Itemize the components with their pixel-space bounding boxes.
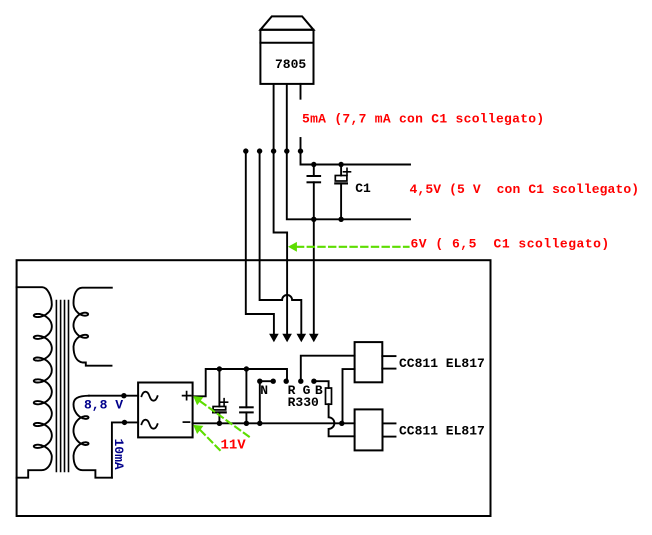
arrowhead D: [309, 334, 319, 342]
wire D ground rail of C1 stage: [287, 151, 410, 219]
node dot 1: [243, 148, 248, 153]
svg-text:R330: R330: [288, 395, 319, 410]
wire E output rail of C1 stage: [301, 151, 411, 164]
annotation arrow 6V (green dashed): [297, 246, 409, 248]
svg-text:CC811 EL817: CC811 EL817: [399, 424, 485, 439]
node dot 3: [271, 148, 276, 153]
annotation arrowhead 11V lower: [193, 425, 203, 434]
enclosure box: [17, 260, 491, 516]
svg-text:10mA: 10mA: [111, 439, 126, 470]
arrowhead B: [297, 334, 307, 342]
svg-text:CC811 EL817: CC811 EL817: [399, 356, 485, 371]
wire A from node 1 down into enclosure: [246, 151, 274, 334]
node dot 5: [298, 148, 303, 153]
annotation arrowhead 6V: [288, 242, 297, 252]
capacitor C4 (ceramic filter): [240, 369, 253, 423]
node dot N1: [257, 379, 262, 384]
node dot top rail at C4: [244, 366, 249, 371]
node dot N2: [271, 379, 276, 384]
wire node G up and right to opto U2: [301, 356, 355, 382]
U1 pin 1 lead (input): [273, 84, 275, 151]
BR1 AC symbol upper: [142, 392, 158, 401]
capacitor C2 (ceramic, top stage): [308, 165, 321, 220]
annotation arrow 11V lower (green dashed): [201, 430, 223, 453]
svg-text:4,5V (5 V con C1 scollegato): 4,5V (5 V con C1 scollegato): [410, 182, 640, 197]
U3 right pin upper: [383, 422, 396, 424]
U1 pin 2 lead (ground): [286, 84, 288, 151]
C3 plus sign: [221, 399, 228, 406]
node dot G: [298, 379, 303, 384]
node dot on + input wire: [121, 393, 126, 398]
svg-text:5mA (7,7 mA con C1 scollegato): 5mA (7,7 mA con C1 scollegato): [302, 112, 544, 127]
svg-text:8,8 V: 8,8 V: [84, 398, 123, 413]
BR1 minus terminal mark: [183, 421, 189, 423]
wire from bottom rail down to arrowhead D: [313, 219, 315, 334]
node dot on - input wire: [122, 420, 127, 425]
resistor lead with hop over bottom rail: [329, 404, 355, 436]
C1 plus sign: [344, 168, 351, 175]
node dot top rail at C3: [217, 366, 222, 371]
node dot bottom rail at C3: [217, 421, 222, 426]
U3 right pin lower: [383, 436, 396, 438]
wire node B to resistor R1: [314, 381, 329, 388]
U2 right pin lower: [382, 368, 395, 370]
BR1 plus terminal mark: [183, 392, 191, 400]
wire stub above node E: [300, 138, 302, 151]
wire bottom rail (bridge - output): [193, 422, 355, 424]
svg-text:7805: 7805: [275, 57, 306, 72]
U2 right pin upper: [382, 355, 395, 357]
node dot 2: [257, 148, 262, 153]
U1 pin 3 lead stub (output, broken): [300, 84, 302, 99]
transformer T1 core: [56, 301, 68, 472]
annotation arrow 11V upper (green dashed): [201, 402, 250, 438]
node dot 4: [284, 148, 289, 153]
wire secondary to bridge - input: [112, 422, 138, 477]
wire C from node 3 down into enclosure: [274, 151, 288, 334]
node dot top rail right: [338, 162, 343, 167]
annotation arrowhead 11V upper: [193, 396, 203, 405]
U2 lower-left pin wire to bottom rail: [343, 369, 355, 423]
node dot top rail left: [311, 162, 316, 167]
svg-text:11V: 11V: [221, 438, 247, 454]
arrowhead C: [282, 334, 292, 342]
node dot bottom rail at C4: [244, 421, 249, 426]
capacitor C3 (electrolytic filter): [213, 369, 226, 423]
svg-text:N: N: [260, 383, 268, 398]
optocoupler U2: [355, 342, 383, 382]
transformer T1 secondary winding (unused): [74, 288, 112, 366]
regulator U1 7805 body: [260, 16, 313, 83]
svg-text:C1: C1: [355, 181, 371, 196]
node dot bottom rail at N column: [257, 421, 262, 426]
resistor R330: [326, 388, 332, 404]
wire B from node 2 with hop, down into enclosure: [260, 151, 302, 334]
arrowhead A: [269, 334, 279, 342]
bridge rectifier BR1: [138, 383, 193, 438]
capacitor C1 (electrolytic): [335, 165, 347, 220]
svg-text:6V ( 6,5 C1 scollegato): 6V ( 6,5 C1 scollegato): [411, 236, 610, 251]
node dot bottom rail at opto junction: [339, 421, 344, 426]
wire N1 to N2: [260, 380, 273, 382]
node dot bottom rail right: [338, 217, 343, 222]
wire bridge + output to top rail: [193, 369, 287, 396]
wire N1 down to bottom rail: [259, 381, 261, 423]
node dot R: [284, 379, 289, 384]
transformer T1 primary winding: [17, 287, 52, 478]
BR1 AC symbol lower: [142, 420, 158, 429]
node dot bottom rail left: [311, 217, 316, 222]
wire secondary to bridge + input: [89, 395, 138, 397]
node dot B: [311, 379, 316, 384]
optocoupler U3: [355, 409, 383, 450]
transformer T1 secondary winding (low voltage): [74, 396, 112, 478]
